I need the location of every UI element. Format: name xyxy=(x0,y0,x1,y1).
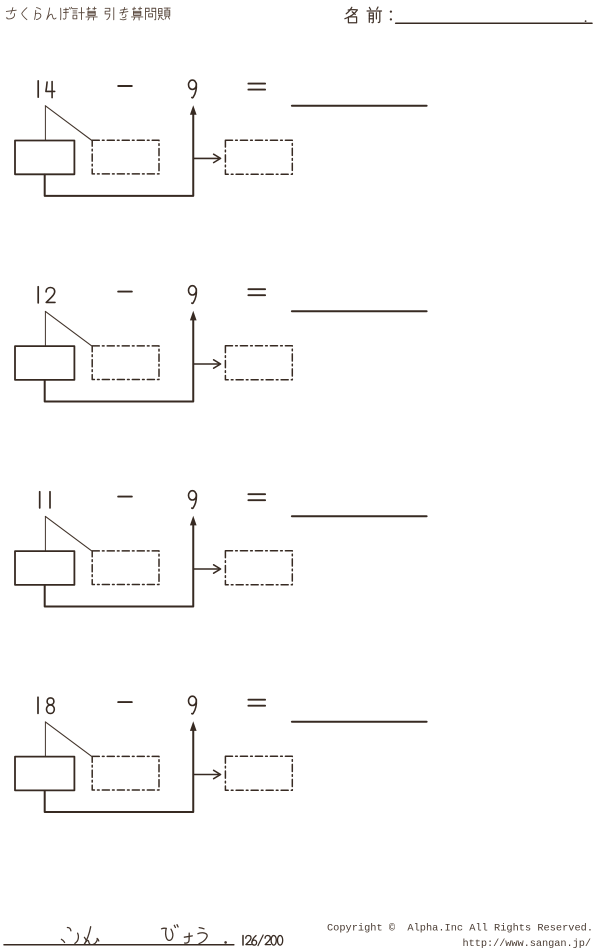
svg-text:http://www.sangan.jp/: http://www.sangan.jp/ xyxy=(463,938,592,950)
svg-text:Copyright © Alpha.Inc All Rig: Copyright © Alpha.Inc All Rights Reserve… xyxy=(327,923,593,935)
